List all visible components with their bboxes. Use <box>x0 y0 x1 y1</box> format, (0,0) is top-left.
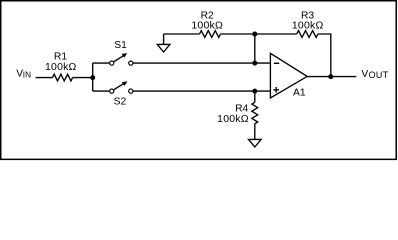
node non-inverting-input junction <box>252 89 257 94</box>
wire VIN to R1 <box>36 77 53 79</box>
node input-split junction <box>90 75 95 80</box>
wire R2 to top junction <box>221 33 255 35</box>
svg-text:100kΩ: 100kΩ <box>45 61 77 73</box>
wire ground corner to R2 <box>164 33 200 35</box>
wire top junction down to inverting input <box>254 34 256 63</box>
switch S2 <box>110 81 133 107</box>
resistor R1 <box>53 74 73 81</box>
ground (R2 left) <box>157 34 170 52</box>
svg-text:S2: S2 <box>114 96 127 107</box>
wire R4 to ground <box>254 124 256 140</box>
wire S2 throw to op-amp non-inverting input <box>133 90 270 92</box>
wire top junction to R3 <box>255 33 297 35</box>
node VOUT <box>361 69 388 80</box>
node feedback junction <box>252 32 257 37</box>
op-amp A1 <box>270 53 307 98</box>
svg-text:V: V <box>361 69 368 80</box>
wire stub to S2 pole <box>93 90 109 92</box>
wire stub to S1 pole <box>93 62 109 64</box>
wire R1 to junction <box>73 77 93 79</box>
switch S1 <box>110 40 133 65</box>
svg-text:IN: IN <box>23 70 31 79</box>
node inverting-input junction <box>252 61 257 66</box>
ground (R4) <box>249 139 262 147</box>
node VIN <box>16 68 31 79</box>
svg-text:100kΩ: 100kΩ <box>217 113 249 125</box>
resistor R4 <box>252 102 258 124</box>
node output junction <box>328 74 333 79</box>
wire non-inverting junction down to R4 <box>254 91 256 102</box>
svg-text:100kΩ: 100kΩ <box>292 20 324 32</box>
wire R3 right leg down to output <box>318 34 331 77</box>
svg-text:A1: A1 <box>293 87 306 98</box>
svg-text:S1: S1 <box>114 40 127 51</box>
svg-text:OUT: OUT <box>369 70 389 80</box>
wire op-amp output to VOUT <box>307 76 356 78</box>
wire vertical branch to switches <box>92 63 94 91</box>
svg-text:100kΩ: 100kΩ <box>191 20 223 32</box>
resistor R3 <box>297 31 318 38</box>
wire S1 throw to op-amp inverting input <box>133 62 270 64</box>
resistor R2 <box>200 31 221 38</box>
